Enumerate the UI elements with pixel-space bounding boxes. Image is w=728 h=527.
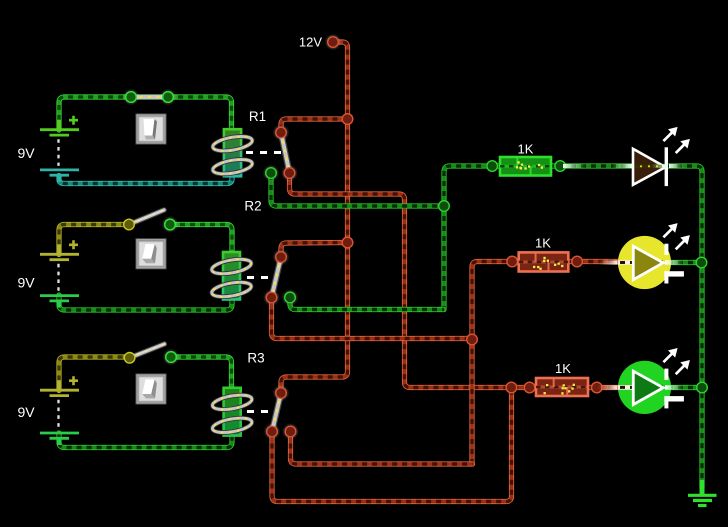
svg-text:1K: 1K	[555, 361, 571, 376]
svg-text:R2: R2	[244, 199, 261, 214]
svg-text:R3: R3	[247, 351, 264, 366]
svg-text:1K: 1K	[535, 236, 551, 251]
svg-text:9V: 9V	[17, 275, 35, 291]
svg-text:1K: 1K	[518, 142, 534, 157]
svg-text:9V: 9V	[17, 145, 35, 161]
svg-text:9V: 9V	[17, 404, 35, 420]
svg-text:12V: 12V	[299, 35, 322, 50]
svg-text:R1: R1	[249, 109, 266, 124]
